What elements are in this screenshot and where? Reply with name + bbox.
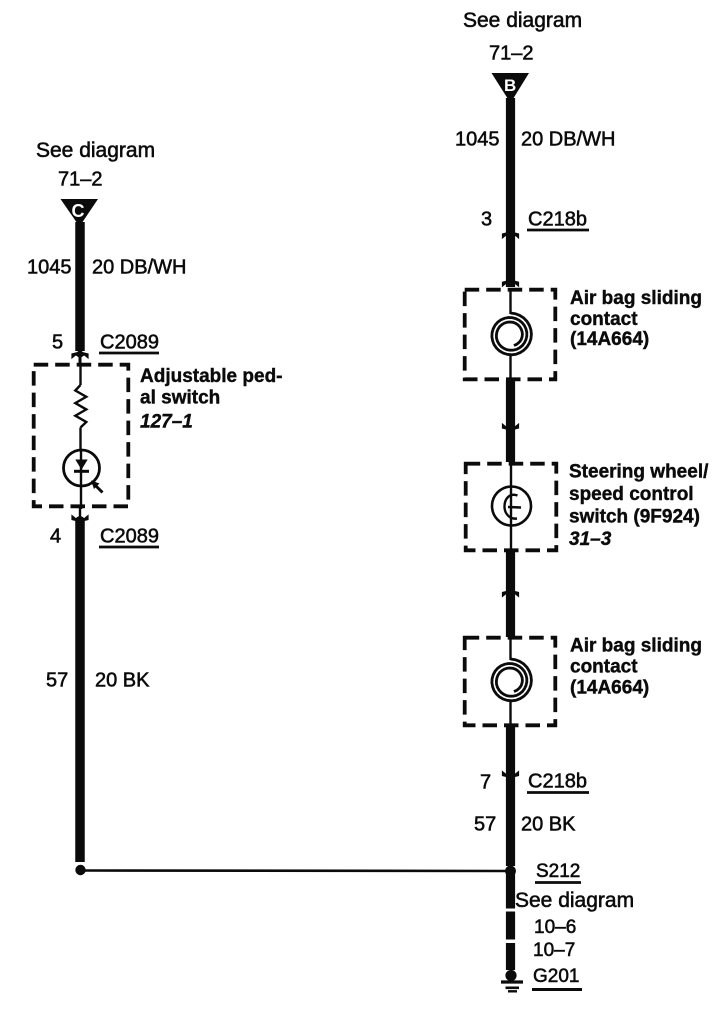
component label: air bag sliding contact 1	[570, 288, 702, 350]
wire: stub between arrow and box top	[79, 356, 82, 365]
svg-text:57: 57	[474, 814, 496, 836]
svg-text:(14A664): (14A664)	[570, 678, 649, 699]
svg-text:7: 7	[480, 772, 491, 794]
svg-text:71–2: 71–2	[58, 169, 103, 191]
label: connector C2089 (bottom)	[99, 526, 159, 548]
component label: Adjustable pedal switch	[140, 366, 283, 433]
svg-text:1045: 1045	[27, 257, 72, 279]
svg-text:1045: 1045	[455, 129, 500, 151]
svg-text:3: 3	[481, 209, 492, 231]
wire: right thick wire box3 down to splice S212	[506, 726, 515, 866]
wire: left thick wire down to splice	[75, 520, 85, 862]
adjuster arrow at circle lower-right	[91, 481, 103, 493]
svg-text:switch (9F924): switch (9F924)	[569, 507, 700, 528]
svg-text:G201: G201	[533, 966, 579, 987]
arrowhead down at C218b (bottom)	[502, 770, 519, 780]
switch circle with e-glyph	[492, 487, 531, 526]
svg-text:31–3: 31–3	[569, 529, 612, 550]
svg-text:C: C	[72, 201, 85, 221]
arrowhead up toward connector C at C2089	[71, 350, 88, 360]
wire: thin lead between resistor and diode circle	[79, 428, 81, 451]
chevron arrow down between box1 and box2	[502, 423, 519, 433]
svg-text:C2089: C2089	[100, 332, 159, 354]
svg-text:10–6: 10–6	[534, 917, 576, 938]
svg-text:Air bag sliding: Air bag sliding	[570, 288, 702, 309]
connector triangle C	[61, 199, 99, 227]
svg-text:See diagram: See diagram	[463, 9, 582, 32]
svg-text:See diagram: See diagram	[515, 889, 634, 912]
svg-text:Adjustable ped-: Adjustable ped-	[140, 366, 283, 387]
svg-text:B: B	[504, 76, 516, 95]
svg-text:contact: contact	[570, 657, 638, 678]
wire: thin lead into spiral (top, box1)	[509, 289, 511, 314]
label: connector C218b (top)	[527, 209, 589, 231]
svg-text:contact: contact	[570, 309, 638, 330]
wire: thick wire box1 to box2	[506, 380, 515, 462]
wire: thick wire S212 to ground	[506, 871, 515, 970]
wire: thin lead out of spiral (bottom, box3)	[509, 702, 511, 725]
wire: left thick wire from triangle C down to C2089 arrow	[75, 222, 85, 351]
resistor (zigzag) inside pedal switch	[75, 385, 86, 428]
wire: thin lead into spiral (top, box3)	[509, 637, 511, 660]
svg-text:4: 4	[50, 526, 61, 548]
svg-text:71–2: 71–2	[489, 43, 534, 65]
svg-text:20 DB/WH: 20 DB/WH	[521, 129, 615, 151]
svg-text:Steering wheel/: Steering wheel/	[569, 462, 709, 483]
arrowhead up into air bag contact box 1	[502, 278, 519, 288]
wire: right thick wire from triangle B to air bag contact	[506, 98, 515, 287]
svg-text:al switch: al switch	[140, 388, 220, 409]
svg-text:(14A664): (14A664)	[570, 329, 649, 350]
label: connector C218b (bottom)	[527, 771, 589, 793]
svg-text:20 DB/WH: 20 DB/WH	[92, 257, 186, 279]
component box: air bag sliding contact 1 (dashed)	[465, 290, 556, 380]
wire: thin lead out of spiral (bottom, box1)	[509, 356, 511, 379]
chevron arrow up between box2 and box3	[502, 588, 519, 598]
component box: adjustable pedal switch (dashed)	[34, 365, 129, 507]
arrowhead down out of pedal switch box	[71, 514, 88, 524]
svg-text:C218b: C218b	[528, 771, 587, 793]
connector triangle B	[492, 73, 530, 103]
junction dot: splice S212	[505, 866, 516, 877]
spiral: sliding contact coil 2	[492, 659, 532, 701]
component label: air bag sliding contact 2	[570, 636, 702, 699]
junction dot (left splice)	[75, 865, 85, 875]
svg-text:5: 5	[52, 332, 63, 354]
svg-text:127–1: 127–1	[140, 412, 193, 433]
component box: air bag sliding contact 2 (dashed)	[465, 638, 556, 726]
chevron arrow up on wire at C218b	[502, 230, 519, 240]
svg-text:10–7: 10–7	[533, 940, 575, 961]
svg-text:See diagram: See diagram	[36, 139, 155, 162]
wire: thin lead inside box2 (top)	[510, 462, 512, 551]
label: splice S212	[535, 861, 581, 883]
diode symbol in circle (pedal switch sensor)	[64, 449, 100, 509]
svg-text:S212: S212	[536, 861, 580, 882]
svg-text:Air bag sliding: Air bag sliding	[570, 636, 702, 657]
wire: horizontal tie wire to S212	[85, 869, 506, 872]
svg-text:57: 57	[46, 670, 68, 692]
svg-text:20 BK: 20 BK	[521, 814, 576, 836]
component box: steering wheel/speed control switch (dashed)	[466, 464, 557, 551]
svg-text:speed control: speed control	[569, 484, 694, 505]
ground symbol G201	[501, 970, 523, 991]
svg-text:20 BK: 20 BK	[95, 670, 150, 692]
wire: thin lead inside box (top)	[79, 363, 81, 385]
svg-text:C218b: C218b	[528, 209, 587, 231]
label: connector C2089 (top)	[99, 332, 159, 354]
wire: thick wire box2 to box3	[506, 551, 515, 637]
label: ground G201	[532, 966, 582, 990]
svg-text:C2089: C2089	[100, 526, 159, 548]
scan gaps on ground wire	[504, 909, 517, 912]
spiral: sliding contact coil 1	[492, 313, 532, 355]
wire: stub between box bottom and arrow	[79, 506, 81, 516]
component label: steering wheel / speed control switch	[569, 462, 709, 551]
